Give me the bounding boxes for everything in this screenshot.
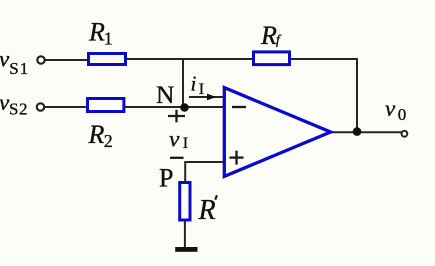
svg-text:I: I [199,81,204,98]
svg-text:I: I [183,135,188,152]
svg-text:0: 0 [398,105,407,124]
svg-text:P: P [159,163,173,192]
svg-text:f: f [276,32,282,47]
svg-text:2: 2 [104,131,113,151]
svg-text:R: R [260,21,277,50]
svg-text:i: i [191,72,197,96]
svg-text:R: R [198,195,216,226]
svg-text:v: v [169,126,180,152]
svg-text:S2: S2 [9,100,28,119]
svg-text:N: N [156,80,174,109]
svg-text:v: v [385,96,396,121]
svg-text:R: R [88,17,105,46]
svg-text:1: 1 [104,29,113,49]
svg-text:R: R [88,120,105,149]
svg-text:S1: S1 [9,59,29,78]
